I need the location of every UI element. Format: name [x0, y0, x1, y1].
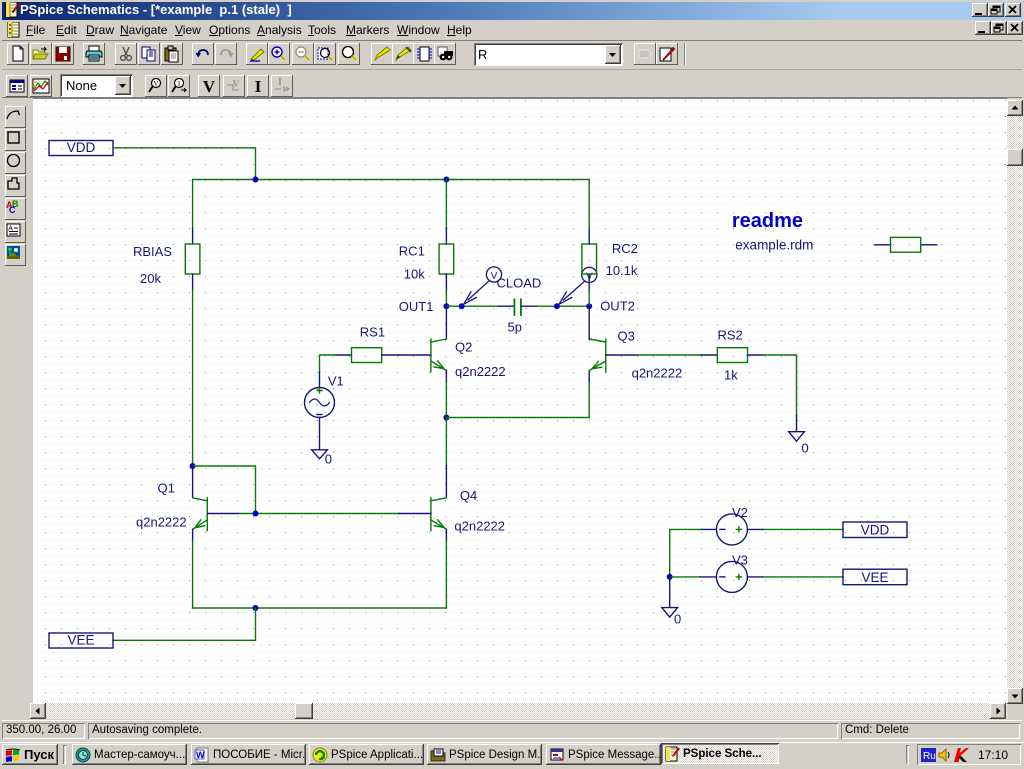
resistor R (floating part at right) — [874, 244, 936, 246]
resistor RBIAS — [185, 244, 200, 274]
wire base rail Q1-Q4 — [239, 513, 399, 515]
svg-text:Q3: Q3 — [618, 329, 635, 344]
svg-text:V1: V1 — [328, 374, 344, 389]
pin Q4 collector — [445, 466, 447, 498]
wire RBIAS to Q1 — [192, 290, 194, 466]
wire bottom rail — [193, 607, 447, 609]
pin Q4 base — [399, 513, 431, 515]
svg-text:Ru: Ru — [923, 751, 936, 762]
svg-text:VEE: VEE — [861, 570, 888, 585]
wire RC1 to OUT1 — [445, 290, 447, 306]
mdi child icon — [6, 22, 22, 38]
svg-text:q2n2222: q2n2222 — [632, 366, 683, 381]
port VDD (right) — [843, 522, 907, 538]
wire Q2 emitter down — [445, 382, 447, 418]
pin Q2 collector — [445, 306, 447, 339]
transistor Q4 — [431, 498, 447, 531]
wire Q4 emitter to bottom rail — [445, 541, 447, 608]
menu bar — [2, 20, 1022, 41]
transistor Q1 (mirrored) — [193, 498, 208, 531]
source V3 — [716, 561, 747, 592]
transistor Q2 — [431, 339, 447, 372]
junction bottom rail — [253, 605, 259, 611]
svg-text:RC1: RC1 — [399, 244, 425, 259]
wire RBIAS top — [192, 180, 194, 229]
wire top rail — [193, 179, 590, 181]
wire VDD to top rail — [113, 148, 256, 180]
junction top rail at RC1 — [443, 177, 449, 183]
svg-text:VDD: VDD — [861, 523, 890, 538]
wire junction to V3 — [670, 576, 701, 578]
wire OUT1 row left — [446, 305, 498, 307]
svg-text:CLOAD: CLOAD — [497, 276, 542, 291]
pin V3 minus — [700, 576, 716, 578]
svg-text:V: V — [203, 77, 216, 95]
pin Q2 base — [399, 354, 431, 356]
svg-text:10.1k: 10.1k — [606, 263, 638, 278]
svg-text:q2n2222: q2n2222 — [454, 519, 505, 534]
wire emitter rail to Q3 — [446, 382, 589, 418]
svg-text:I: I — [278, 77, 282, 88]
junction V3 node — [667, 574, 673, 580]
junction OUT1 — [443, 303, 449, 309]
svg-text:V: V — [153, 80, 158, 88]
wire Q3 base to RS2 — [638, 354, 702, 356]
resistor RS1 — [352, 348, 382, 363]
ground 0 (RS2) — [789, 416, 805, 442]
junction base rail — [253, 511, 259, 517]
pin RC1 pin2 — [445, 274, 447, 290]
svg-text:I: I — [254, 77, 261, 95]
svg-text:0: 0 — [674, 612, 681, 627]
wire RS1 left — [320, 355, 336, 372]
V1 plus sign — [317, 388, 322, 393]
svg-text:10k: 10k — [404, 267, 425, 282]
junction top rail at VDD drop — [253, 177, 259, 183]
port VEE (bottom-left) — [49, 633, 113, 648]
pin RBIAS pin2 — [192, 274, 194, 290]
port VDD (top-left) — [49, 141, 113, 156]
taskbar — [0, 742, 1024, 769]
svg-text:V: V — [491, 271, 498, 282]
junction RBIAS/Q1 base branch — [190, 463, 196, 469]
svg-text:q2n2222: q2n2222 — [455, 364, 506, 379]
scrollbars — [1007, 99, 1023, 704]
wire to VEE port — [113, 608, 256, 640]
svg-text:0: 0 — [802, 441, 809, 456]
svg-text:W: W — [196, 750, 205, 760]
pin Q2 emitter — [445, 371, 447, 383]
wire Q4 collector from emitter node — [445, 418, 447, 466]
source V2 — [716, 514, 747, 545]
wire CLOAD to OUT2 — [537, 305, 589, 307]
pin Q1 base — [207, 513, 239, 515]
wire RC2 to OUT2 — [588, 290, 590, 306]
row1 buttons — [7, 43, 29, 65]
wire Q1 emitter to bottom rail — [192, 541, 194, 608]
status bar — [2, 720, 1022, 743]
svg-text:1k: 1k — [724, 368, 738, 383]
port VEE (right) — [843, 569, 907, 585]
junction OUT1 marker point — [459, 303, 465, 309]
pin V2 plus lead — [747, 528, 763, 530]
pin V3 plus lead — [747, 576, 763, 578]
resistor RC2 — [582, 244, 597, 274]
left palette — [0, 98, 33, 720]
pin V1 minus + ground 0 (V1) — [312, 418, 328, 459]
row2 buttons — [6, 75, 28, 97]
junction OUT2 marker point — [554, 303, 560, 309]
svg-text:OUT1: OUT1 — [399, 299, 434, 314]
svg-text:example.rdm: example.rdm — [735, 238, 813, 253]
pin CLOAD pin2 — [521, 305, 537, 307]
pin Q3 base — [606, 354, 638, 356]
svg-text:Q1: Q1 — [158, 481, 175, 496]
toolbar rows — [2, 41, 1022, 70]
combo None — [60, 74, 133, 97]
pin Q1 emitter — [192, 529, 194, 541]
resistor RS2 — [717, 348, 747, 363]
pin Q1 collector — [192, 466, 194, 498]
capacitor CLOAD plates — [514, 299, 521, 315]
transistor Q3 (mirrored) — [589, 339, 606, 372]
svg-text:RS2: RS2 — [718, 328, 743, 343]
wire V3 to VEE port — [763, 576, 843, 578]
pin V2 minus — [700, 528, 716, 530]
wire RC2 top — [588, 180, 590, 229]
pin V1 plus — [319, 372, 321, 388]
viewpoint marker V at OUT1 (CLOAD side) — [464, 267, 502, 304]
wire V2 to VDD port — [763, 528, 843, 530]
pin RC2 pin1 — [588, 228, 590, 244]
svg-text:V2: V2 — [732, 505, 748, 520]
wire V2 to corner — [670, 529, 701, 561]
ground 0 (V2/V3) — [662, 577, 678, 617]
pin Q4 emitter — [445, 529, 447, 541]
canvas — [33, 98, 1007, 704]
pin RC2 pin2 — [588, 274, 590, 290]
svg-text:C: C — [9, 205, 16, 215]
svg-text:RC2: RC2 — [612, 241, 638, 256]
junction Q2/Q4 emitter node — [443, 415, 449, 421]
svg-text:VEE: VEE — [67, 633, 94, 648]
V2 plus sign — [736, 527, 741, 532]
svg-text:q2n2222: q2n2222 — [136, 515, 187, 530]
pin RS1 pin1 — [336, 354, 352, 356]
svg-text:Q4: Q4 — [460, 488, 477, 503]
combo R — [474, 43, 623, 66]
svg-text:RBIAS: RBIAS — [133, 244, 172, 259]
pin Q3 collector — [588, 306, 590, 339]
svg-text:0: 0 — [325, 452, 332, 467]
svg-text:V3: V3 — [732, 553, 748, 568]
pin RBIAS pin1 — [192, 228, 194, 244]
junction OUT2 — [586, 303, 592, 309]
svg-text:OUT2: OUT2 — [600, 299, 635, 314]
wire RS2 to ground corner — [764, 355, 797, 416]
V3 plus sign — [736, 574, 741, 579]
pin RS2 pin2 wire to ground — [748, 354, 764, 356]
svg-text:5p: 5p — [508, 320, 522, 335]
pin RC1 pin1 — [445, 228, 447, 244]
svg-text:readme: readme — [732, 210, 803, 232]
pin CLOAD pin1 — [499, 305, 514, 307]
svg-text:VDD: VDD — [67, 140, 96, 155]
resistor R body — [891, 237, 921, 252]
svg-text:Q2: Q2 — [455, 340, 472, 355]
source V1 — [305, 388, 335, 418]
pin Q3 emitter — [588, 371, 590, 383]
svg-text:20k: 20k — [140, 271, 161, 286]
pin RS2 pin1 — [701, 354, 717, 356]
viewpoint marker V at OUT2 (RC2 side) — [559, 267, 597, 304]
pin RS1 pin2 — [382, 354, 399, 356]
svg-text:RS1: RS1 — [360, 325, 385, 340]
wire RC1 top — [445, 180, 447, 229]
title bar — [2, 2, 1022, 20]
resistor RC1 — [439, 244, 454, 274]
wire corner to V3 junction — [669, 561, 671, 577]
wire branch to base rail — [193, 466, 256, 514]
